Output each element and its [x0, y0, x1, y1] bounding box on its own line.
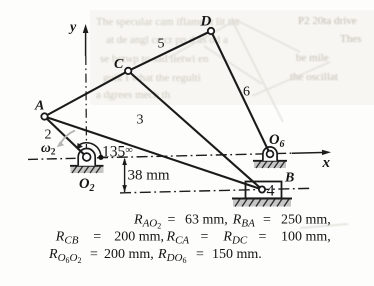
joint A	[41, 113, 47, 119]
pivot O2 pedestal dome	[78, 149, 95, 166]
slider block 4	[246, 182, 282, 199]
link 6 (D to O6)	[211, 31, 270, 154]
svg-text:B: B	[284, 171, 294, 186]
node dot on x line	[98, 155, 103, 160]
x axis (dash-dot through O2 and O6)	[28, 152, 327, 159]
135 degree arc at O2	[77, 143, 101, 158]
svg-text:A: A	[34, 99, 44, 114]
link 3 edge C-B	[128, 71, 262, 190]
link 2 (O2 to A)	[45, 117, 87, 158]
joint D	[208, 28, 214, 34]
svg-text:2: 2	[45, 128, 52, 143]
svg-text:38 mm: 38 mm	[128, 168, 170, 184]
svg-text:D: D	[200, 14, 212, 30]
bleed-through text (scan show-through)	[96, 15, 361, 101]
svg-text:Thes: Thes	[340, 33, 361, 45]
svg-text:guik I what the regulti: guik I what the regulti	[103, 72, 201, 84]
dimension 38 mm	[122, 158, 127, 193]
pivot pin O6	[267, 151, 274, 158]
svg-text:3: 3	[137, 113, 144, 128]
lower dash-dot line through B	[120, 188, 312, 193]
svg-text:4: 4	[267, 183, 275, 200]
link 3 edge A-B	[45, 117, 263, 190]
ground hatch at O2	[70, 166, 104, 173]
pivot pin O2	[83, 153, 91, 161]
joint B pin	[259, 186, 265, 192]
omega2 rotation arrow (gray)	[61, 131, 75, 143]
ground hatch at O6	[253, 161, 287, 168]
svg-text:6: 6	[243, 85, 250, 100]
svg-text:The specular cam iflame it lit: The specular cam iflame it lit tht	[96, 16, 240, 28]
svg-text:P2 20ta drive: P2 20ta drive	[298, 15, 357, 27]
link 5 (C to D)	[128, 31, 211, 71]
link 3 edge A-C	[45, 71, 129, 117]
bleed-through sketch lines	[168, 20, 348, 228]
svg-text:C: C	[114, 57, 124, 72]
svg-text:be mile: be mile	[296, 52, 329, 64]
ground under slider B	[232, 199, 292, 207]
svg-text:y: y	[68, 20, 77, 35]
svg-text:5: 5	[158, 37, 165, 52]
svg-text:at de angl ce cr pp d as od a: at de angl ce cr pp d as od a	[106, 34, 228, 46]
pivot O6 pedestal dome	[263, 147, 277, 161]
y axis	[83, 24, 89, 156]
svg-text:x: x	[322, 155, 331, 171]
joint C	[125, 68, 131, 74]
